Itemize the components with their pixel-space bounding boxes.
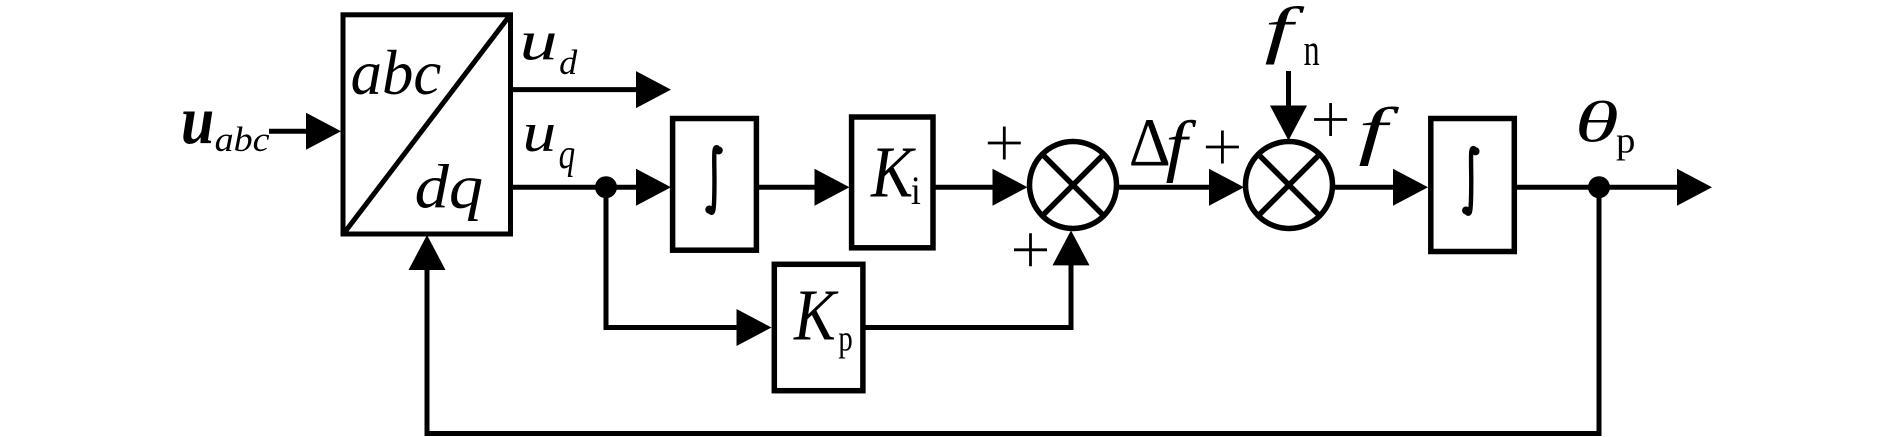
svg-text:d: d: [559, 43, 577, 82]
svg-text:u: u: [520, 10, 558, 72]
diagonal of abc/dq block: [345, 17, 510, 233]
block Kp: [774, 264, 863, 390]
wire f_n down into summer 2: [1286, 71, 1291, 108]
arrowhead Kp into summer 1 bottom: [1053, 230, 1090, 265]
wire u_q to integrator: [511, 185, 640, 190]
block integrator 2: [1431, 119, 1515, 252]
wire integrator2 to output: [1514, 185, 1680, 190]
wire summer2 to integrator 2: [1335, 185, 1397, 190]
arrowhead into integrator 1: [636, 169, 671, 206]
svg-text:abc: abc: [351, 38, 442, 108]
node junction on u_q: [595, 176, 617, 198]
svg-text:K: K: [793, 274, 839, 356]
svg-text:i: i: [911, 169, 921, 213]
svg-text:u: u: [181, 82, 214, 158]
wire integrator1 to Ki: [756, 185, 817, 190]
svg-text:dq: dq: [415, 152, 484, 222]
block Ki: [852, 117, 933, 248]
label integral sign 1: [705, 146, 723, 213]
svg-text:q: q: [559, 131, 576, 178]
block abc/dq transform U1: [343, 15, 511, 234]
arrowhead into Ki: [815, 169, 850, 206]
summer 2 X diagonals: [1258, 154, 1320, 216]
plus sign upper-right of summer 2: [1314, 103, 1347, 136]
plus sign upper-left of summer 1: [988, 127, 1021, 160]
svg-text:u: u: [523, 102, 557, 163]
arrowhead into summer 1: [993, 169, 1028, 206]
svg-text:K: K: [870, 131, 916, 212]
wire u_abc input: [269, 129, 310, 134]
arrowhead output: [1677, 169, 1712, 206]
plus sign left of summer 2: [1206, 131, 1239, 164]
arrowhead into summer 2: [1209, 169, 1244, 206]
svg-text:p: p: [838, 319, 852, 359]
wire u_d output: [511, 87, 640, 92]
wire feedback theta_p to abc/dq block: [427, 187, 1599, 433]
svg-text:p: p: [1616, 120, 1635, 161]
svg-text:abc: abc: [215, 119, 270, 158]
wire Kp output up into summer 1: [863, 264, 1071, 328]
wire summer1 to summer2: [1119, 185, 1213, 190]
node theta_p junction: [1588, 176, 1610, 198]
wire u_q branch down to Kp: [606, 187, 738, 327]
svg-text:θ: θ: [1575, 90, 1619, 155]
label integral sign 2: [1462, 147, 1480, 214]
summer 2 circle: [1246, 142, 1333, 229]
svg-text:Δ: Δ: [1129, 104, 1171, 181]
arrowhead into Kp: [737, 309, 772, 346]
svg-text:n: n: [1304, 26, 1320, 76]
plus sign lower-left of summer 1: [1014, 233, 1047, 266]
arrowhead feedback into abc/dq bottom: [409, 235, 446, 270]
wire Ki to summer 1: [933, 185, 995, 190]
summer 1 circle: [1030, 142, 1117, 229]
summer 1 X diagonals: [1042, 154, 1104, 216]
arrowhead into integrator 2: [1393, 169, 1428, 206]
arrowhead u_d: [636, 71, 671, 108]
arrowhead into abc/dq block: [306, 113, 341, 150]
block integrator 1: [673, 119, 757, 251]
arrowhead f_n into summer 2: [1270, 106, 1307, 141]
